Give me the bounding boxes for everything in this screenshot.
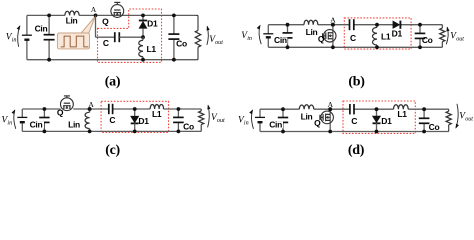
capacitor C (c) xyxy=(108,104,110,114)
top rail (d) xyxy=(260,108,299,110)
svg-text:L1: L1 xyxy=(381,31,391,41)
svg-text:Lin: Lin xyxy=(66,15,78,25)
svg-text:Lin: Lin xyxy=(301,112,313,122)
transistor Q (b) xyxy=(332,25,334,48)
capacitor Co (a) xyxy=(173,15,175,34)
voltage source Vin (a) xyxy=(22,34,32,36)
source branch wires (a) xyxy=(26,15,28,35)
bottom rail (b) xyxy=(268,46,442,48)
inductor L1 (a) xyxy=(142,37,144,40)
svg-text:L1: L1 xyxy=(397,109,407,119)
svg-text:Lin: Lin xyxy=(68,119,80,129)
inductor L1 (d) xyxy=(394,105,409,110)
Vout arrow (d) pointing down xyxy=(456,104,458,128)
bottom rail (c) xyxy=(22,130,201,132)
svg-text:in: in xyxy=(247,36,252,42)
capacitor Cin (c) xyxy=(43,109,45,118)
Vout arrow (c) xyxy=(208,105,210,127)
bottom rail (d) xyxy=(260,131,449,133)
svg-text:Cin: Cin xyxy=(30,120,43,130)
capacitor C (b) xyxy=(349,19,351,30)
svg-text:(c): (c) xyxy=(105,143,120,158)
top rail (b) xyxy=(268,24,304,26)
node A (d) xyxy=(328,107,332,111)
junction dots (b) xyxy=(286,23,290,27)
svg-text:in: in xyxy=(7,121,12,127)
capacitor Co (d) xyxy=(423,109,425,118)
svg-text:in: in xyxy=(244,121,249,127)
pulse waveform box xyxy=(57,33,89,49)
load resistor (a) xyxy=(197,15,199,30)
svg-text:L1: L1 xyxy=(147,44,157,54)
dashed highlight box (b) xyxy=(344,18,411,49)
svg-text:out: out xyxy=(465,116,473,122)
node A (a) xyxy=(94,14,98,18)
diode D1 (c) xyxy=(134,109,136,116)
inductor Lin (d) xyxy=(299,105,314,110)
source branch wires (d) xyxy=(259,109,261,117)
diode D1 (b) xyxy=(393,21,401,29)
svg-text:(a): (a) xyxy=(105,75,121,90)
capacitor C (d) xyxy=(349,104,351,114)
svg-text:Lin: Lin xyxy=(306,27,318,37)
svg-text:L1: L1 xyxy=(152,109,162,119)
source branch wires (c) xyxy=(21,109,23,117)
junction node C/D1/L1 (a) xyxy=(141,35,145,39)
inductor Lin (c) xyxy=(89,109,91,112)
svg-text:A: A xyxy=(91,5,97,14)
Vin arrow (d) xyxy=(252,110,254,129)
voltage source Vin (d) xyxy=(255,116,265,118)
svg-text:out: out xyxy=(217,118,225,124)
capacitor Co (b) xyxy=(419,25,421,34)
voltage source Vin (c) xyxy=(17,116,27,118)
svg-text:out: out xyxy=(456,37,464,43)
load resistor (c) xyxy=(200,109,202,111)
source branch wires (b) xyxy=(267,25,269,34)
svg-text:(b): (b) xyxy=(348,75,365,90)
capacitor C (a) xyxy=(114,32,116,42)
load resistor (d) xyxy=(448,109,450,111)
junction dots (a) xyxy=(47,14,51,18)
svg-text:D1: D1 xyxy=(138,116,149,126)
svg-text:out: out xyxy=(215,40,223,46)
Vout arrow (a) xyxy=(207,26,208,45)
svg-text:Co: Co xyxy=(183,122,194,132)
load resistor (b) xyxy=(441,25,443,28)
top rail (a) xyxy=(27,14,65,16)
Vout arrow (b) xyxy=(446,27,448,44)
svg-text:Co: Co xyxy=(422,35,433,45)
svg-text:D1: D1 xyxy=(381,116,392,126)
capacitor Cin (d) xyxy=(282,109,284,117)
svg-text:C: C xyxy=(351,116,357,126)
node A (c) xyxy=(88,107,92,111)
svg-text:D1: D1 xyxy=(147,19,158,29)
junction dots (c) xyxy=(43,107,47,111)
transistor Q (c) xyxy=(61,98,74,111)
svg-text:Q: Q xyxy=(102,16,109,26)
waveform callout wedge to node A xyxy=(81,16,95,33)
capacitor Cin (a) xyxy=(48,15,50,34)
dashed highlight box (d) xyxy=(343,101,415,133)
inductor L1 (c) xyxy=(150,105,164,109)
svg-text:Cin: Cin xyxy=(274,35,287,45)
voltage source Vin (b) xyxy=(263,33,273,35)
svg-text:Q: Q xyxy=(318,34,325,44)
diode D1 (a) xyxy=(142,15,144,20)
svg-text:Cin: Cin xyxy=(269,120,282,130)
transistor Q (a) xyxy=(111,5,124,18)
svg-text:Co: Co xyxy=(176,39,187,49)
Vin arrow (a) xyxy=(18,26,20,47)
inductor Lin (b) xyxy=(304,20,318,25)
wire C to junction (a) xyxy=(119,36,143,38)
inductor L1 (b) xyxy=(376,25,378,28)
svg-text:Co: Co xyxy=(429,122,440,132)
capacitor Co (c) xyxy=(177,109,179,117)
pulse waveform trace xyxy=(61,36,89,47)
wire node A to C (a) xyxy=(95,15,97,37)
transistor Q (d) xyxy=(329,109,331,131)
svg-text:C: C xyxy=(350,33,356,43)
svg-text:in: in xyxy=(12,37,17,43)
svg-text:C: C xyxy=(103,38,109,48)
diode D1 (d) xyxy=(376,109,378,116)
capacitor Cin (b) xyxy=(287,25,289,33)
junction dots (d) xyxy=(281,107,285,111)
bottom rail (a) xyxy=(27,59,196,61)
dashed highlight box (c) xyxy=(101,101,168,132)
svg-text:Cin: Cin xyxy=(35,24,48,34)
svg-text:(d): (d) xyxy=(348,143,365,158)
top rail (c) xyxy=(22,108,60,110)
dashed highlight box (a) xyxy=(98,9,162,62)
node A (b) xyxy=(331,23,335,27)
svg-text:Q: Q xyxy=(57,108,64,118)
Vin arrow (b) xyxy=(259,25,261,44)
inductor Lin (a) xyxy=(65,11,79,16)
svg-text:C: C xyxy=(109,115,115,125)
Vin arrow (c) xyxy=(14,110,16,129)
svg-text:D1: D1 xyxy=(392,29,403,39)
svg-text:Q: Q xyxy=(314,118,321,128)
